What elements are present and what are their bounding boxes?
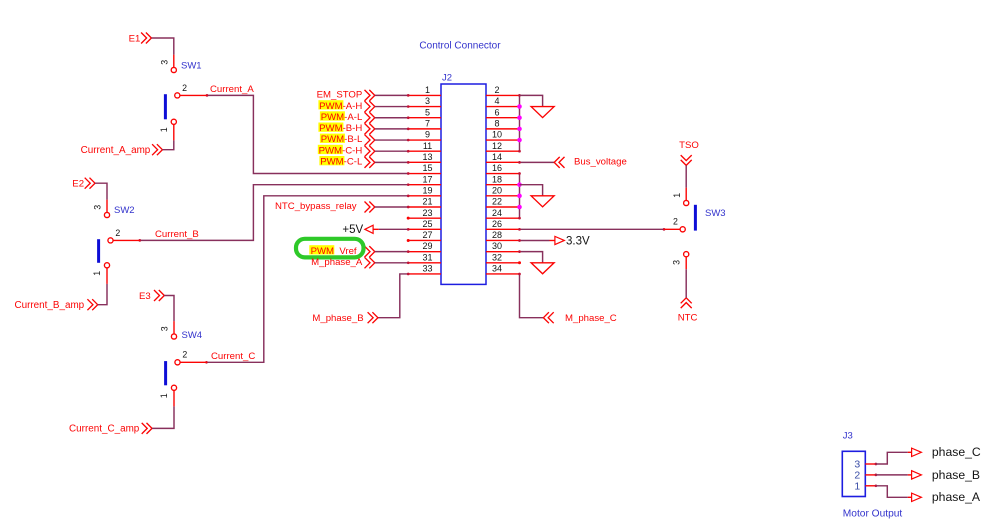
- port Current_A_amp: [81, 144, 163, 156]
- wire Current_B net to pin 17: [138, 183, 409, 241]
- svg-text:M_phase_B: M_phase_B: [312, 313, 363, 324]
- wire SW4 pin 1 to Current_C_amp: [152, 406, 174, 428]
- svg-text:8: 8: [494, 118, 499, 128]
- svg-text:3: 3: [159, 60, 169, 65]
- J2 pin 24: [486, 208, 520, 218]
- SW3 pin 2 circle: [680, 227, 685, 232]
- wire Current_A net to pin 15: [206, 94, 410, 175]
- svg-text:32: 32: [492, 252, 502, 262]
- svg-text:SW1: SW1: [181, 60, 202, 71]
- SW1 pin 1 stub: [173, 124, 175, 140]
- ground symbol 3: [531, 263, 554, 274]
- SW3 pin 3 circle: [684, 252, 689, 257]
- svg-text:E1: E1: [129, 34, 141, 45]
- port Current_B_amp: [14, 299, 97, 311]
- SW2 lever bar: [97, 239, 100, 263]
- svg-text:phase_B: phase_B: [932, 468, 980, 482]
- SW2 pin 3 stub: [106, 200, 108, 213]
- ground bus pins 2-12: [518, 94, 521, 152]
- svg-text:2: 2: [182, 83, 187, 93]
- wire to ground 1: [520, 95, 543, 106]
- SW2 pin 3 number: [93, 205, 103, 210]
- green highlight around PWM_Vref: [296, 239, 364, 258]
- junction dot pin 20: [517, 194, 522, 199]
- refdes SW2: [114, 205, 135, 216]
- port NTC: [678, 298, 698, 324]
- junction dot pin 8: [517, 127, 522, 132]
- junction dot pin 6: [517, 115, 522, 120]
- svg-text:Control Connector: Control Connector: [419, 41, 501, 52]
- svg-text:PWM-B-L: PWM-B-L: [321, 134, 363, 145]
- J2 pin 11: [408, 141, 441, 151]
- svg-text:TSO: TSO: [679, 140, 699, 151]
- port PWM-A-L: [320, 111, 410, 123]
- svg-text:12: 12: [492, 141, 502, 151]
- svg-text:27: 27: [422, 230, 432, 240]
- port phase_B: [912, 468, 980, 482]
- svg-text:2: 2: [115, 228, 120, 238]
- svg-text:1: 1: [159, 393, 169, 398]
- svg-text:3.3V: 3.3V: [566, 235, 590, 247]
- J2 pin 3: [408, 96, 441, 106]
- J3 pin 3: [854, 459, 877, 471]
- svg-text:SW2: SW2: [114, 205, 135, 216]
- SW2 pin 2 stub: [113, 239, 140, 241]
- port PWM_Vref: [309, 245, 409, 257]
- port PWM-C-L: [319, 156, 409, 168]
- wire J3 pin 2 to phase_B: [876, 474, 912, 476]
- J2 pin 13: [408, 152, 441, 162]
- svg-text:1: 1: [672, 193, 682, 198]
- svg-text:2: 2: [182, 350, 187, 360]
- J2 pin 4: [486, 96, 520, 106]
- junction dot pin 4: [517, 104, 522, 109]
- port E2: [72, 178, 95, 190]
- J2 pin 31: [408, 252, 441, 262]
- svg-text:1: 1: [854, 481, 860, 493]
- svg-text:34: 34: [492, 264, 502, 274]
- J2 pin 10: [486, 130, 520, 140]
- SW4 pin 2 stub: [180, 361, 207, 363]
- J2 pin 21: [408, 197, 441, 207]
- svg-text:22: 22: [492, 197, 502, 207]
- svg-text:E2: E2: [72, 179, 84, 190]
- wire E1 to SW1 pin 3: [151, 38, 173, 55]
- svg-text:phase_C: phase_C: [932, 445, 981, 459]
- svg-text:26: 26: [492, 219, 502, 229]
- wire Current_C net to pin 19: [205, 194, 409, 363]
- svg-text:10: 10: [492, 130, 502, 140]
- SW1 pin 3 stub: [173, 55, 175, 68]
- svg-text:6: 6: [494, 107, 499, 117]
- power 3.3V at pin 28: [518, 235, 590, 247]
- pin 32 end dot: [518, 261, 521, 264]
- svg-text:29: 29: [422, 241, 432, 251]
- wire pin 33 to M_phase_B: [378, 273, 410, 318]
- svg-text:28: 28: [492, 230, 502, 240]
- SW4 pin 1 circle: [171, 385, 176, 390]
- wire TSO to SW3 pin 1: [685, 165, 687, 187]
- svg-text:phase_A: phase_A: [932, 490, 981, 504]
- J3 pin 1: [854, 481, 877, 493]
- SW4 pin 1 number: [159, 393, 169, 398]
- SW1 pin 3 circle: [171, 67, 176, 72]
- ground symbol 1: [531, 107, 554, 118]
- J2 pin 23: [408, 208, 441, 218]
- wire Bus_voltage pin 14: [518, 161, 554, 164]
- wire SW3 pin 3 to NTC: [685, 269, 687, 298]
- port TSO: [679, 140, 699, 165]
- SW3 pin 3 stub: [685, 257, 687, 269]
- port Current_C_amp: [69, 423, 152, 435]
- port M_phase_A: [311, 257, 409, 268]
- svg-text:2: 2: [673, 217, 678, 227]
- connector J2 body: [441, 84, 486, 284]
- wire J3 pin 3 to phase_C: [876, 452, 912, 464]
- SW3 pin 2 stub: [664, 228, 680, 230]
- SW3 pin 1 stub: [685, 188, 687, 201]
- svg-text:20: 20: [492, 185, 502, 195]
- J2 pin 22: [486, 197, 520, 207]
- wire to ground 2: [520, 185, 543, 196]
- J2 pin 34: [486, 264, 520, 274]
- port M_phase_B: [312, 312, 378, 324]
- svg-text:3: 3: [93, 205, 103, 210]
- SW4 lever bar: [164, 361, 167, 385]
- J2 pin 32: [486, 252, 520, 262]
- refdes SW4: [182, 330, 203, 341]
- SW1 pin 1 number: [159, 127, 169, 132]
- svg-text:4: 4: [494, 96, 499, 106]
- svg-text:13: 13: [422, 152, 432, 162]
- J2 pin 2: [486, 85, 520, 95]
- svg-text:3: 3: [672, 260, 682, 265]
- port NTC_bypass_relay: [275, 201, 410, 212]
- svg-text:SW4: SW4: [182, 330, 203, 341]
- J2 pin 29: [408, 241, 441, 251]
- svg-text:19: 19: [422, 185, 432, 195]
- svg-text:J3: J3: [843, 430, 853, 441]
- SW4 pin 2 circle: [175, 360, 180, 365]
- svg-text:2: 2: [494, 85, 499, 95]
- svg-text:21: 21: [422, 197, 432, 207]
- wire E2 to SW2 pin 3: [95, 183, 107, 199]
- svg-text:NTC: NTC: [678, 313, 698, 324]
- SW2 pin 1 circle: [104, 263, 109, 268]
- SW4 pin 2 number: [182, 350, 187, 360]
- junction dot pin 10: [517, 138, 522, 143]
- svg-text:25: 25: [422, 219, 432, 229]
- J2 pin 6: [486, 107, 520, 117]
- J2 pin 15: [408, 163, 441, 173]
- J2 pin 20: [486, 185, 520, 195]
- svg-text:11: 11: [423, 141, 432, 151]
- J2 pin 9: [408, 130, 441, 140]
- ground bus pins 16-24: [518, 172, 521, 219]
- svg-text:SW3: SW3: [705, 208, 726, 219]
- J2 pin 1: [408, 85, 441, 95]
- SW4 pin 3 circle: [171, 334, 176, 339]
- wire SW2 pin 1 to Current_B_amp: [98, 284, 107, 305]
- svg-text:E3: E3: [139, 291, 151, 302]
- port PWM-B-L: [320, 134, 410, 146]
- wire pin 34 to M_phase_C: [518, 273, 543, 318]
- J2 pin 27: [408, 230, 441, 240]
- svg-text:NTC_bypass_relay: NTC_bypass_relay: [275, 201, 357, 212]
- svg-text:Current_A_amp: Current_A_amp: [81, 145, 151, 156]
- J3 pin 2: [854, 470, 877, 482]
- SW1 pin 2 number: [182, 83, 187, 93]
- SW1 pin 2 stub: [180, 94, 207, 96]
- pin 27 end dot: [407, 239, 410, 242]
- svg-text:1: 1: [425, 85, 430, 95]
- svg-text:5: 5: [425, 107, 430, 117]
- svg-text:23: 23: [422, 208, 432, 218]
- J2 pin 18: [486, 174, 520, 184]
- svg-text:Motor Output: Motor Output: [843, 508, 903, 519]
- svg-text:24: 24: [492, 208, 502, 218]
- svg-text:M_phase_A: M_phase_A: [311, 257, 363, 268]
- junction dot pin 18: [517, 182, 522, 187]
- wire J3 pin 1 to phase_A: [876, 486, 912, 498]
- port E1: [129, 33, 152, 45]
- J2 pin 25: [408, 219, 441, 229]
- J2 pin 14: [486, 152, 520, 162]
- port phase_A: [912, 490, 981, 504]
- SW3 lever bar: [694, 205, 697, 231]
- port phase_C: [912, 445, 981, 459]
- svg-text:33: 33: [422, 264, 432, 274]
- svg-text:Current_B: Current_B: [155, 229, 199, 240]
- J2 pin 8: [486, 118, 520, 128]
- J2 pin 7: [408, 118, 441, 128]
- SW1 pin 1 circle: [171, 119, 176, 124]
- SW4 pin 3 number: [160, 326, 170, 331]
- port Bus_voltage: [554, 157, 627, 168]
- SW2 pin 3 circle: [104, 212, 109, 217]
- svg-text:16: 16: [492, 163, 502, 173]
- J2 pin 16: [486, 163, 520, 173]
- J2 pin 28: [486, 230, 520, 240]
- ground symbol 2: [531, 196, 554, 207]
- port PWM-B-H: [318, 123, 409, 135]
- wire pin 30 to ground 3: [518, 250, 542, 263]
- svg-text:7: 7: [425, 118, 430, 128]
- SW4 pin 1 stub: [173, 390, 175, 406]
- svg-text:Current_A: Current_A: [210, 84, 254, 95]
- svg-text:PWM-B-H: PWM-B-H: [319, 123, 362, 134]
- SW2 pin 2 circle: [108, 238, 113, 243]
- SW2 pin 1 stub: [106, 268, 108, 284]
- svg-text:17: 17: [422, 174, 432, 184]
- svg-text:J2: J2: [442, 73, 452, 84]
- wire SW1 pin 1 to Current_A_amp: [162, 140, 173, 149]
- svg-text:18: 18: [492, 174, 502, 184]
- SW1 lever bar: [164, 94, 167, 119]
- J2 pin 26: [486, 219, 520, 229]
- svg-text:PWM-C-H: PWM-C-H: [319, 145, 363, 156]
- svg-text:EM_STOP: EM_STOP: [317, 90, 363, 101]
- SW2 pin 2 number: [115, 228, 120, 238]
- junction dot pin 22: [517, 205, 522, 210]
- power +5V at pin 25: [342, 224, 409, 236]
- svg-text:15: 15: [422, 163, 432, 173]
- port EM_STOP: [317, 90, 410, 101]
- port M_phase_C: [543, 312, 616, 324]
- svg-text:PWM_Vref: PWM_Vref: [311, 246, 357, 257]
- svg-text:3: 3: [160, 326, 170, 331]
- svg-text:PWM-C-L: PWM-C-L: [320, 157, 363, 168]
- SW3 pin 1 circle: [684, 200, 689, 205]
- connector J3 body: [842, 451, 865, 496]
- J2 pin 5: [408, 107, 441, 117]
- port E3: [139, 290, 164, 302]
- svg-text:1: 1: [92, 271, 102, 276]
- wire E3 to SW4 pin 3: [164, 296, 174, 322]
- SW4 pin 3 stub: [173, 321, 175, 334]
- svg-text:Current_C_amp: Current_C_amp: [69, 424, 140, 435]
- SW1 pin 2 circle: [175, 93, 180, 98]
- svg-text:PWM-A-L: PWM-A-L: [321, 112, 363, 123]
- svg-text:+5V: +5V: [342, 224, 363, 236]
- J2 pin 19: [408, 185, 441, 195]
- wire pin 26 to SW3: [518, 228, 665, 231]
- svg-text:Current_B_amp: Current_B_amp: [14, 300, 84, 311]
- svg-text:M_phase_C: M_phase_C: [565, 313, 617, 324]
- SW2 pin 1 number: [92, 271, 102, 276]
- svg-text:Bus_voltage: Bus_voltage: [574, 157, 627, 168]
- svg-text:PWM-A-H: PWM-A-H: [319, 101, 362, 112]
- J2 pin 30: [486, 241, 520, 251]
- J2 pin 17: [408, 174, 441, 184]
- svg-text:1: 1: [159, 127, 169, 132]
- J2 pin 12: [486, 141, 520, 151]
- J2 pin 33: [408, 264, 441, 274]
- port PWM-A-H: [318, 100, 409, 112]
- svg-text:30: 30: [492, 241, 502, 251]
- pin 23 end dot: [407, 217, 410, 220]
- svg-text:Current_C: Current_C: [211, 351, 255, 362]
- svg-text:9: 9: [425, 130, 430, 140]
- SW1 pin 3 number: [159, 60, 169, 65]
- svg-text:14: 14: [492, 152, 502, 162]
- svg-text:3: 3: [425, 96, 430, 106]
- refdes SW1: [181, 60, 202, 71]
- port PWM-C-H: [318, 145, 410, 157]
- svg-text:31: 31: [422, 252, 432, 262]
